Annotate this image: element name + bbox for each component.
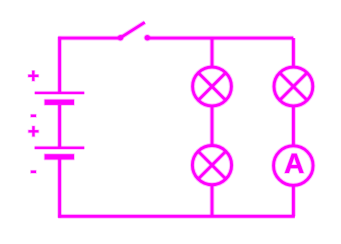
svg-text:+: + <box>28 121 40 143</box>
svg-text:A: A <box>284 148 304 179</box>
svg-text:+: + <box>28 65 40 87</box>
svg-text:-: - <box>30 160 37 182</box>
